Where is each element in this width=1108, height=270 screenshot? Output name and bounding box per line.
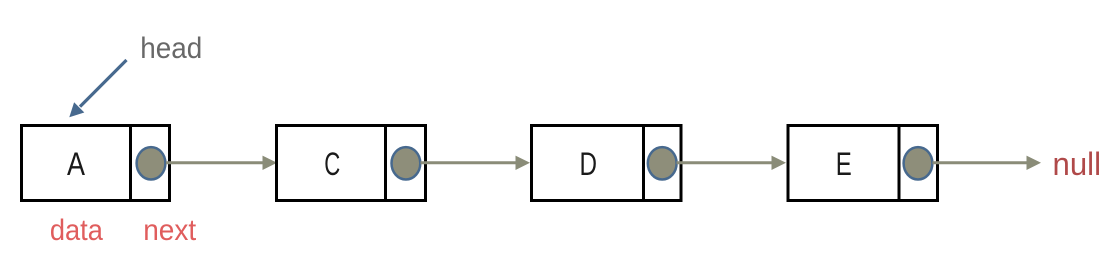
node D box [532,126,682,201]
head arrow [80,60,127,107]
svg-text:C: C [324,146,340,182]
wire arrow A to C [166,161,264,164]
svg-text:D: D [580,146,598,182]
svg-text:E: E [836,146,852,182]
svg-text:null: null [1053,146,1102,182]
node C pointer circle [392,147,421,179]
svg-text:A: A [67,146,86,182]
wire arrow D to E [677,161,773,164]
node A divider [129,124,132,202]
node C divider [384,124,387,202]
node D divider [642,124,645,202]
wire arrow C to D [421,161,517,164]
node A pointer circle [137,147,166,179]
node D pointer circle [648,147,677,179]
svg-text:data: data [50,214,103,247]
node E divider [898,124,901,202]
node E box [788,126,938,201]
node E pointer circle [904,147,933,179]
node C box [277,126,426,201]
svg-text:head: head [140,32,202,65]
wire arrow E to null [933,161,1028,164]
node A box [22,126,170,201]
svg-text:next: next [143,214,197,247]
